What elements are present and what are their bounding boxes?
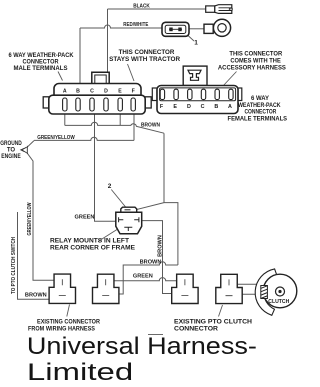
svg-text:C: C [90, 88, 94, 94]
svg-text:BROWN: BROWN [140, 259, 162, 265]
svg-text:Universal Harness-: Universal Harness- [27, 333, 257, 360]
svg-text:GREEN/YELLOW: GREEN/YELLOW [27, 202, 33, 236]
svg-text:2: 2 [108, 183, 112, 190]
svg-text:E: E [173, 104, 177, 110]
svg-text:FEMALE TERMINALS: FEMALE TERMINALS [228, 116, 288, 122]
svg-text:EXISTING PTO CLUTCH: EXISTING PTO CLUTCH [174, 320, 252, 326]
svg-text:GREEN: GREEN [133, 273, 153, 279]
svg-text:D: D [104, 88, 108, 94]
svg-text:BROWN: BROWN [25, 293, 47, 299]
svg-text:MALE TERMINALS: MALE TERMINALS [14, 66, 68, 72]
svg-text:ENGINE: ENGINE [1, 154, 21, 160]
svg-text:Limited: Limited [27, 359, 133, 386]
svg-text:RELAY MOUNTS IN LEFT: RELAY MOUNTS IN LEFT [50, 239, 129, 245]
svg-text:TO PTO CLUTCH SWITCH: TO PTO CLUTCH SWITCH [11, 237, 17, 294]
svg-text:CONNECTOR: CONNECTOR [23, 59, 60, 65]
svg-text:COMES WITH THE: COMES WITH THE [230, 59, 280, 65]
svg-text:FROM WIRING HARNESS: FROM WIRING HARNESS [28, 327, 95, 333]
svg-text:EXISTING CONNECTOR: EXISTING CONNECTOR [37, 320, 101, 326]
svg-text:REAR CORNER OF FRAME: REAR CORNER OF FRAME [50, 246, 135, 252]
svg-text:TO: TO [7, 148, 16, 154]
svg-text:WEATHER-PACK: WEATHER-PACK [238, 103, 281, 109]
svg-text:STAYS WITH TRACTOR: STAYS WITH TRACTOR [109, 57, 181, 63]
svg-text:D: D [187, 104, 191, 110]
svg-text:B: B [76, 88, 80, 94]
svg-text:C: C [201, 104, 205, 110]
svg-text:GREEN: GREEN [75, 214, 95, 220]
svg-text:CONNECTOR: CONNECTOR [174, 327, 219, 333]
svg-text:GROUND: GROUND [0, 141, 22, 147]
svg-text:A: A [63, 88, 67, 94]
svg-text:B: B [214, 104, 218, 110]
svg-text:GREEN/YELLOW: GREEN/YELLOW [37, 135, 75, 141]
svg-text:THIS CONNECTOR: THIS CONNECTOR [119, 50, 175, 56]
svg-text:CLUTCH: CLUTCH [268, 299, 289, 305]
svg-text:A: A [228, 104, 232, 110]
svg-text:BROWN: BROWN [141, 122, 160, 128]
svg-text:RED/WHITE: RED/WHITE [123, 22, 148, 28]
svg-text:BLACK: BLACK [133, 3, 150, 9]
svg-text:CONNECTOR: CONNECTOR [244, 110, 276, 116]
svg-text:1: 1 [194, 40, 198, 47]
svg-text:THIS CONNECTOR: THIS CONNECTOR [229, 52, 283, 58]
svg-text:6 WAY WEATHER-PACK: 6 WAY WEATHER-PACK [8, 53, 74, 59]
svg-text:ACCESSORY HARNESS: ACCESSORY HARNESS [218, 66, 286, 72]
svg-text:F: F [132, 88, 135, 94]
svg-text:BROWN: BROWN [157, 235, 163, 257]
svg-text:6 WAY: 6 WAY [251, 96, 269, 102]
svg-text:E: E [118, 88, 122, 94]
